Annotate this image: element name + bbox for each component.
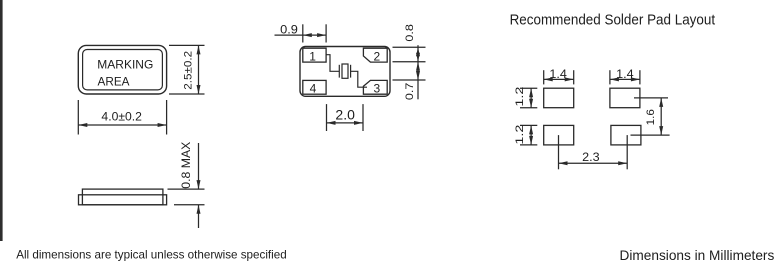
pad 1 bbox=[303, 48, 326, 62]
svg-text:1.2: 1.2 bbox=[514, 87, 526, 107]
dim 0.9 dimension/leader line bbox=[275, 34, 327, 36]
svg-text:4.0±0.2: 4.0±0.2 bbox=[101, 110, 142, 124]
dim 0.8/0.7 vertical dimension line bbox=[417, 45, 419, 99]
solder pad bottom-right bbox=[611, 125, 641, 144]
dim 2.0 extension line right bbox=[362, 104, 364, 131]
dim 1.4 left: arrow left bbox=[544, 77, 553, 81]
dim 0.9 extension line left bbox=[302, 24, 304, 42]
svg-text:Dimensions in Millimeters: Dimensions in Millimeters bbox=[620, 247, 775, 263]
svg-text:1.4: 1.4 bbox=[616, 67, 634, 81]
dim 1.6: dimension line bbox=[660, 98, 662, 135]
dim 1.2 top: tick top bbox=[520, 87, 537, 89]
dim 1.4 right: arrow left bbox=[610, 77, 619, 81]
dim 1.4 left: arrow right bbox=[565, 77, 574, 81]
dim 0.9 extension line right bbox=[325, 24, 327, 42]
dim 1.4 left: dimension line bbox=[544, 78, 574, 80]
svg-text:MARKING: MARKING bbox=[97, 57, 153, 71]
dim 2.3: right leader line bbox=[626, 135, 628, 169]
svg-text:0.8 MAX: 0.8 MAX bbox=[179, 142, 193, 189]
dim 0.8 MAX arrow down bbox=[197, 180, 201, 189]
wire from pad 1 to crystal bbox=[326, 55, 339, 72]
dim 1.4 right: tick right bbox=[639, 70, 641, 84]
svg-text:1.6: 1.6 bbox=[645, 109, 657, 125]
svg-text:4: 4 bbox=[310, 81, 317, 95]
dim 2.0 arrow left bbox=[327, 121, 336, 125]
svg-text:AREA: AREA bbox=[98, 74, 130, 88]
dim 2.5±0.2 extension line top bbox=[169, 44, 205, 46]
dim 4.0±0.2 arrow right bbox=[158, 123, 167, 127]
dim 1.2 bottom: dimension line bbox=[530, 125, 532, 144]
dim 2.5±0.2 arrow down bbox=[197, 85, 201, 94]
crystal left plate bbox=[338, 65, 340, 78]
dim 0.8 MAX arrow up bbox=[197, 205, 201, 214]
dim 1.6: arrow down bbox=[659, 126, 663, 135]
dim 2.3: arrow left bbox=[559, 161, 568, 165]
dim 1.4 left: tick right bbox=[573, 70, 575, 84]
wire from crystal to pad 3 bbox=[351, 71, 367, 87]
dim 4.0±0.2 dimension line bbox=[78, 124, 166, 126]
dim 2.5±0.2 arrow up bbox=[197, 45, 201, 54]
svg-text:3: 3 bbox=[374, 81, 381, 95]
dim 2.3: dimension line bbox=[559, 162, 628, 164]
dim 0.7 arrow up bbox=[416, 62, 420, 71]
dim 0.8 MAX lower leader line bbox=[198, 205, 200, 228]
dim 2.5±0.2 extension line bottom bbox=[169, 93, 205, 95]
svg-text:1: 1 bbox=[309, 49, 316, 63]
solder pad top-left bbox=[544, 88, 574, 108]
dim 1.2 bottom: tick top bbox=[520, 124, 537, 126]
dim 1.2 top: dimension line bbox=[530, 88, 532, 108]
left page border line bbox=[0, 0, 3, 241]
dim 4.0±0.2 arrow left bbox=[78, 123, 87, 127]
crystal right plate bbox=[350, 65, 352, 78]
dim 0.8 arrow up bbox=[416, 47, 420, 56]
dim 2.3: arrow right bbox=[618, 161, 627, 165]
svg-text:All dimensions are typical unl: All dimensions are typical unless otherw… bbox=[16, 247, 287, 261]
dim 1.2 top: arrow down bbox=[529, 99, 533, 108]
dim 2.0 arrow right bbox=[354, 121, 363, 125]
dim 0.7 arrow down bbox=[416, 71, 420, 80]
solder pad bottom-left bbox=[544, 125, 574, 144]
top view inner marking area outline bbox=[83, 50, 163, 90]
svg-text:Recommended Solder Pad Layout: Recommended Solder Pad Layout bbox=[510, 13, 715, 29]
dim 2.3: left leader line bbox=[558, 135, 560, 169]
dim 0.8 MAX upper leader line bbox=[198, 143, 200, 189]
dim 1.6: bottom leader line bbox=[631, 134, 670, 136]
dim 1.4 right: tick left bbox=[609, 70, 611, 84]
bottom view package outline bbox=[300, 47, 390, 97]
dim 0.8 arrow down bbox=[416, 53, 420, 62]
dim 2.0 extension line left bbox=[326, 104, 328, 131]
svg-text:0.8: 0.8 bbox=[404, 24, 416, 42]
svg-text:2.0: 2.0 bbox=[335, 107, 355, 122]
side view base rectangle bbox=[79, 195, 167, 205]
dim 1.2 bottom: arrow up bbox=[529, 125, 533, 134]
dim 1.4 left: tick left bbox=[543, 70, 545, 84]
dim 0.8/0.7 extension line 2 bbox=[393, 61, 426, 63]
solder pad top-right bbox=[610, 88, 640, 108]
svg-text:2: 2 bbox=[374, 49, 381, 63]
dim 1.2 top: tick bottom bbox=[520, 107, 537, 109]
svg-text:2.3: 2.3 bbox=[582, 150, 600, 164]
dim 1.6: arrow up bbox=[659, 98, 663, 107]
dim 1.2 bottom: arrow down bbox=[529, 136, 533, 145]
dim 0.7 extension line 3 bbox=[393, 79, 426, 81]
top view outer body outline bbox=[78, 45, 166, 94]
crystal body bbox=[342, 64, 348, 78]
dim 0.9 arrow right bbox=[317, 33, 326, 37]
dim 0.9 arrow left bbox=[303, 33, 312, 37]
dim 1.4 right: arrow right bbox=[631, 77, 640, 81]
svg-text:1.2: 1.2 bbox=[514, 125, 526, 145]
dim 0.8 MAX extension line bottom bbox=[174, 204, 205, 206]
dim 1.2 bottom: tick bottom bbox=[520, 144, 537, 146]
dim 0.8 MAX extension line top bbox=[168, 188, 205, 190]
svg-text:0.7: 0.7 bbox=[404, 83, 416, 101]
side view lid rectangle bbox=[82, 189, 162, 205]
svg-text:1.4: 1.4 bbox=[549, 67, 567, 81]
dim 1.6: top leader line bbox=[634, 97, 668, 99]
dim 2.0 dimension line bbox=[327, 122, 364, 124]
svg-text:2.5±0.2: 2.5±0.2 bbox=[182, 51, 194, 90]
dim 2.5±0.2 dimension line bbox=[198, 45, 200, 94]
pad 4 bbox=[303, 80, 326, 94]
dim 1.4 right: dimension line bbox=[610, 78, 640, 80]
pad 2 (chamfered) bbox=[363, 48, 387, 62]
dim 1.2 top: arrow up bbox=[529, 88, 533, 97]
dim 4.0±0.2 extension line right bbox=[166, 100, 168, 135]
dim 0.8 extension line 1 bbox=[393, 46, 426, 48]
svg-text:0.9: 0.9 bbox=[280, 22, 298, 36]
pad 3 (chamfered) bbox=[363, 80, 387, 94]
dim 4.0±0.2 extension line left bbox=[77, 100, 79, 135]
